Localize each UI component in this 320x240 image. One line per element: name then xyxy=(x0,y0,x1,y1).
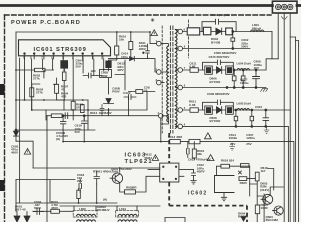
gnd bus mid xyxy=(63,142,294,222)
wire bridge xyxy=(17,212,27,223)
zener ZD601 xyxy=(14,131,19,142)
dashed shield right xyxy=(188,20,190,58)
diode block DC1 xyxy=(205,106,213,114)
resistor R608 xyxy=(71,101,75,110)
resistor R606 xyxy=(81,105,85,113)
inductor L601 top xyxy=(118,214,137,216)
dashed route vertical xyxy=(168,133,170,206)
resistor R614b xyxy=(77,190,81,198)
wire cluster mid xyxy=(16,60,155,130)
wire q area xyxy=(247,179,283,222)
bypass row C xyxy=(203,102,234,110)
T601 secondary winding xyxy=(175,30,177,129)
dashed route down xyxy=(246,206,248,222)
component snub B1 xyxy=(232,76,236,81)
primary left rail xyxy=(15,32,17,211)
ground G3 xyxy=(191,180,196,184)
junction dots rowD xyxy=(235,126,237,128)
inductor L600 bottom xyxy=(77,220,96,222)
dashed filter box L600 xyxy=(73,211,97,217)
capacitor C619 xyxy=(94,171,100,184)
wire corner q602 xyxy=(268,169,274,191)
T601 sec pin s6 xyxy=(178,124,183,129)
transistor Q603 xyxy=(274,206,283,215)
capacitor C605 (film, filled) xyxy=(106,61,111,68)
diode D601a xyxy=(14,216,20,222)
warning triangle tlp xyxy=(152,155,158,161)
diode D604 xyxy=(216,28,222,35)
wire R616 xyxy=(193,142,195,160)
row C wire xyxy=(183,109,291,111)
T601 star mark xyxy=(151,19,154,22)
resistor R602 xyxy=(35,68,46,71)
diode D612 xyxy=(130,56,135,60)
capacitor C619 cap2 xyxy=(61,116,66,129)
resistor R618 xyxy=(255,172,259,181)
inductor L600 top xyxy=(77,214,96,216)
wire R605 bus xyxy=(47,115,158,117)
wire to transformer pin xyxy=(135,57,157,72)
T601 core xyxy=(170,26,173,133)
wire R603 xyxy=(32,84,40,110)
component snub B2 xyxy=(241,76,245,81)
connector pin 1 xyxy=(276,4,281,9)
T601 primary winding xyxy=(167,46,169,122)
IC601 pin numbers xyxy=(23,56,105,60)
diode box DA2 xyxy=(226,28,233,35)
resistor R611 xyxy=(190,108,198,113)
wire vertical k xyxy=(46,100,88,130)
IC604 square xyxy=(160,163,179,182)
capacitor C613 xyxy=(187,142,190,158)
wire pin1 down xyxy=(272,13,278,59)
resistor R619 xyxy=(255,205,259,214)
inductor L604 xyxy=(237,68,250,70)
mid rail s2 wire xyxy=(183,48,251,50)
dashed shield left xyxy=(161,26,163,133)
IC601 pin wires xyxy=(25,59,104,110)
capacitor C618 xyxy=(79,179,82,193)
junction dots cluster xyxy=(15,69,109,111)
resistor R617b xyxy=(241,164,250,168)
dashed board border top xyxy=(5,14,272,16)
T601 pin p2 xyxy=(157,70,162,75)
resistor R614 xyxy=(189,139,200,143)
ground rowD xyxy=(264,126,269,133)
capacitor C604 xyxy=(33,209,44,215)
T601 pin p3 xyxy=(157,80,162,85)
ground under IC602 xyxy=(221,193,226,201)
connector pin 3 xyxy=(288,4,293,9)
resistor R620 xyxy=(187,28,200,35)
capacitor C612 xyxy=(146,44,150,57)
resistor R607 xyxy=(55,84,59,93)
capacitor C604 xyxy=(124,95,136,100)
capacitor C610 xyxy=(263,110,269,126)
T601 pin digits xyxy=(156,28,186,127)
warning triangle T601 xyxy=(151,30,158,36)
component C614 xyxy=(234,116,238,121)
capacitor C612e xyxy=(192,170,196,181)
secondary labels xyxy=(189,13,263,146)
junction dots rowC xyxy=(235,109,237,111)
diode D608 xyxy=(217,107,222,114)
wire rail right A xyxy=(290,37,295,222)
diode block DB2 xyxy=(226,66,234,74)
bottom line-filter row xyxy=(60,206,160,221)
capacitor C616 xyxy=(217,100,220,105)
junction dots rail32 xyxy=(116,31,151,33)
resistor R601 xyxy=(51,209,60,213)
box C608 xyxy=(100,70,112,78)
wire pin3 down xyxy=(289,13,291,222)
mains top bus bar xyxy=(0,4,301,7)
capacitor C615 xyxy=(217,60,220,65)
dashed route horizontal xyxy=(169,205,247,207)
component C607 xyxy=(250,116,254,121)
IC602 box xyxy=(215,176,235,193)
wire bottom buses xyxy=(16,168,160,211)
transistor Q601 xyxy=(112,173,122,183)
bypass row A xyxy=(202,22,236,32)
wire pin2 down xyxy=(283,13,285,222)
resistor R604b xyxy=(62,72,66,81)
T601 sec pin s3 xyxy=(178,68,183,73)
connector pin 2 xyxy=(282,4,287,9)
primary box top rail xyxy=(16,32,156,44)
connector J601 xyxy=(272,1,297,13)
wire startup xyxy=(97,168,125,203)
wire R602 xyxy=(16,70,54,78)
inductor L603 xyxy=(250,30,264,32)
resistor R615 xyxy=(125,190,136,194)
resistor R611 xyxy=(129,42,133,50)
wire R607 xyxy=(54,78,57,100)
right of IC601 startup parts xyxy=(109,32,157,72)
wire C605 xyxy=(108,68,110,71)
wire R611 xyxy=(109,32,131,59)
capacitor C601 xyxy=(216,19,219,24)
dashed board border left xyxy=(4,15,6,222)
resistor R603 xyxy=(30,88,34,97)
T601 sec pin s4 xyxy=(178,85,183,90)
row A wire xyxy=(183,31,273,33)
resistor R616 xyxy=(192,149,196,158)
capacitor C613b xyxy=(100,105,104,116)
warning triangle 2 xyxy=(204,133,211,139)
junction dots buses low xyxy=(62,141,162,204)
diode D607 xyxy=(217,67,222,74)
dashed shield / signal routes bottom xyxy=(169,133,247,222)
wire C602 xyxy=(63,68,65,72)
row D bus xyxy=(183,126,289,222)
junction row A xyxy=(232,31,234,33)
wire rail right B xyxy=(296,41,299,223)
warning triangle 1 xyxy=(24,149,30,155)
bypass row B xyxy=(203,62,234,70)
junction gndrail xyxy=(226,87,228,89)
resistor R613 xyxy=(170,139,181,143)
junction dot zd xyxy=(15,129,17,131)
T601 secondary stubs xyxy=(175,30,178,127)
diode D601b xyxy=(24,216,30,222)
T601 sec pin s1 xyxy=(178,29,183,34)
IC601 pin dots xyxy=(24,53,103,55)
warning triangle 3 xyxy=(207,155,214,161)
junction dots bus116 xyxy=(62,115,64,117)
warning ticks xyxy=(28,32,213,159)
wire filter stubs xyxy=(74,206,137,211)
diode D609 xyxy=(241,217,246,222)
diode block DC2 xyxy=(226,106,234,114)
gnd rail wire xyxy=(183,87,267,89)
row B wire xyxy=(183,59,279,70)
wire c619 xyxy=(47,116,84,222)
warning triangles secondary xyxy=(204,133,214,161)
chassis ground under connector xyxy=(281,16,287,20)
resistor R610 xyxy=(115,46,119,55)
resistor R605 xyxy=(51,114,62,118)
T601 sec pin s2 xyxy=(178,46,183,51)
capacitor snub A (box) xyxy=(231,38,235,41)
T601 primary connects xyxy=(161,44,169,142)
wire zener corner xyxy=(16,141,33,168)
filter bus xyxy=(60,205,160,207)
capacitor C617 xyxy=(82,118,88,142)
diode box DA1 xyxy=(203,27,211,35)
scan artifact marks left edge xyxy=(0,84,5,191)
dashed filter box L601 xyxy=(116,211,139,217)
IC604 pins xyxy=(163,166,164,167)
primary small labels xyxy=(33,35,150,110)
capacitor C604B xyxy=(65,113,68,119)
mid bottom area: R613 etc xyxy=(47,116,294,222)
capacitor C603 xyxy=(83,73,97,78)
inductor L601 bottom xyxy=(118,220,137,222)
T601 sec pin s5 xyxy=(178,108,183,113)
resistor R613b xyxy=(190,68,198,73)
resistor R617 xyxy=(239,177,247,181)
inductor L605 xyxy=(237,108,250,110)
IC601 pins xyxy=(25,56,103,60)
wire R616b xyxy=(217,166,250,196)
T601 pin p4 xyxy=(159,114,164,119)
resistor R609 xyxy=(136,90,143,94)
ground gnd rail xyxy=(261,89,268,92)
transistor Q602 xyxy=(263,194,273,204)
diode D606 xyxy=(104,99,114,104)
capacitor C608e xyxy=(253,70,260,88)
primary second rail xyxy=(19,58,21,203)
bottom box part xyxy=(165,218,185,223)
wire IC604 xyxy=(136,170,194,192)
capacitor C602 (film, filled) xyxy=(61,61,68,69)
wire R610 xyxy=(109,32,117,61)
x junction xyxy=(239,171,242,174)
op IC601 body xyxy=(19,40,111,56)
ground small left xyxy=(230,143,235,150)
resistor R616b xyxy=(221,164,230,168)
diode block DB1 xyxy=(205,66,213,74)
T601 pin p1 xyxy=(157,41,162,46)
